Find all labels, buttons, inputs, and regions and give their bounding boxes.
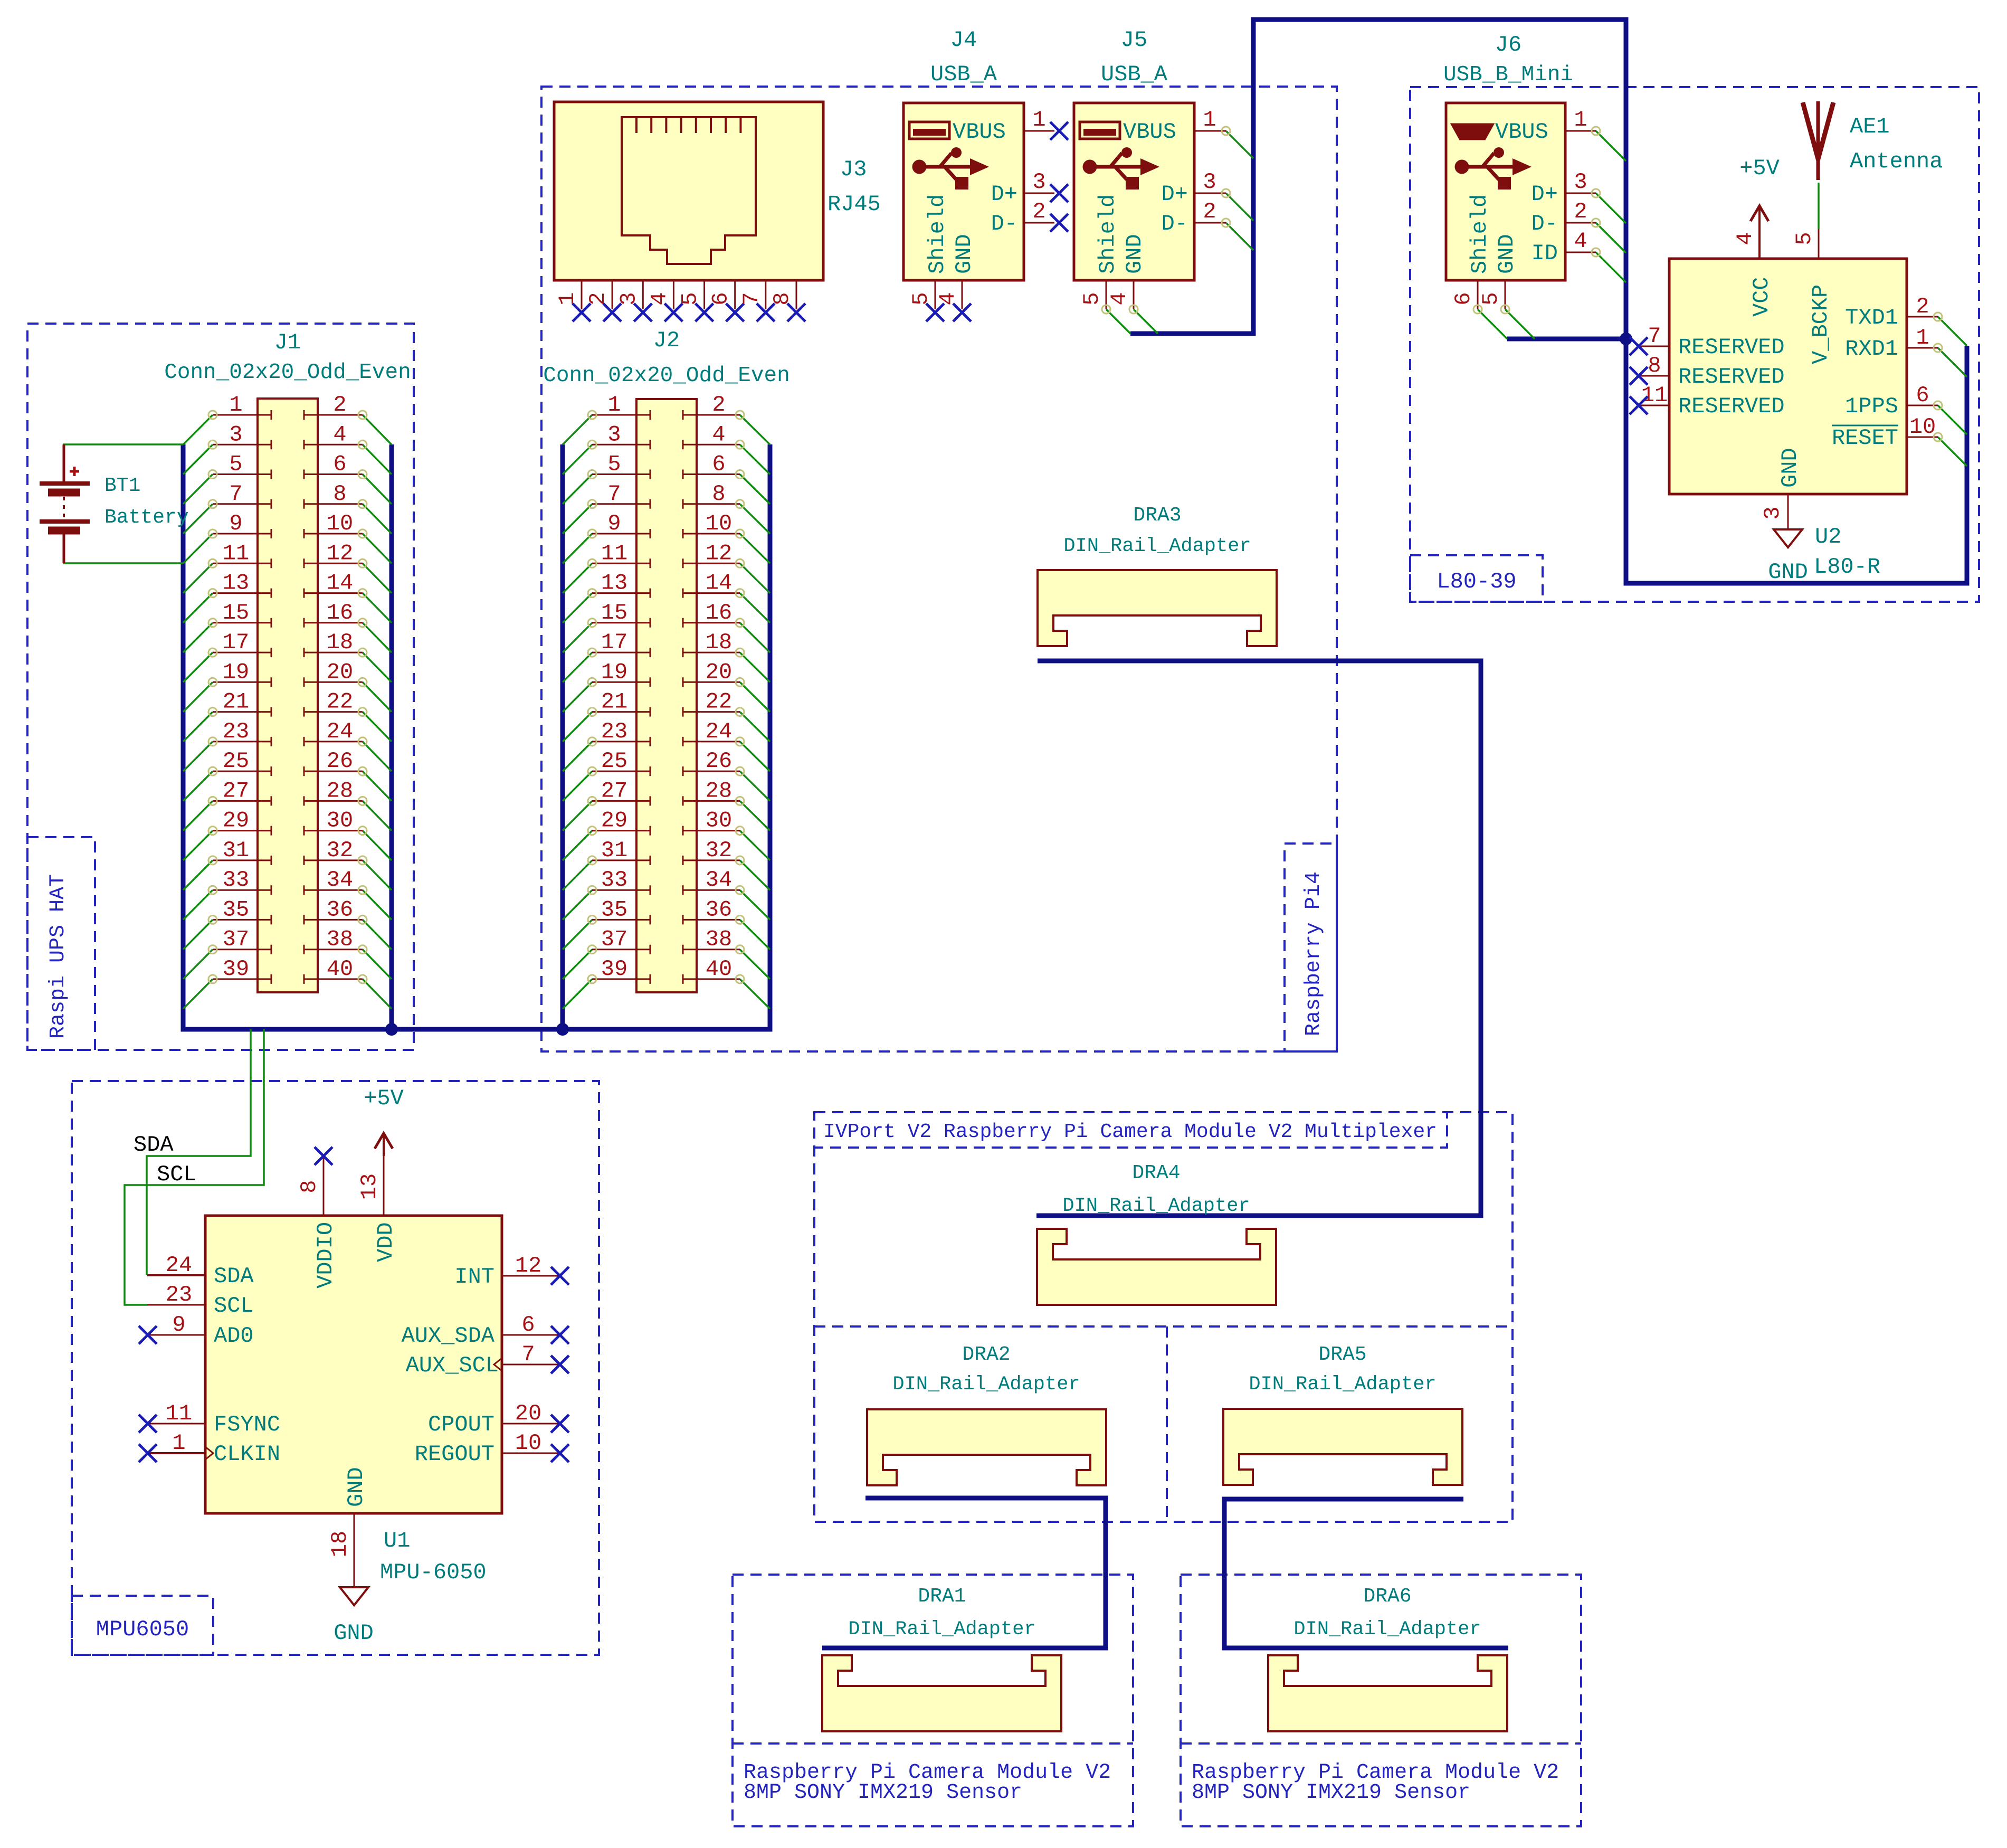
IC U1 MPU-6050 [205, 1216, 502, 1585]
svg-text:AD0: AD0 [214, 1323, 254, 1349]
svg-text:12: 12 [327, 541, 353, 566]
svg-text:33: 33 [223, 867, 249, 893]
wire U2 pin diagonals [1938, 317, 1967, 466]
U2 pins 2,1 TXD1 RXD1 [1845, 294, 1942, 362]
svg-text:7: 7 [229, 481, 242, 507]
J5 pins 5,4 bottom [1079, 280, 1138, 314]
wire J5 pin diagonals [1106, 131, 1253, 334]
svg-text:1: 1 [1203, 107, 1216, 132]
svg-text:37: 37 [601, 927, 627, 952]
J6 pins 1,3,2,4 right [1565, 107, 1600, 257]
svg-text:5: 5 [678, 292, 703, 305]
svg-text:DIN_Rail_Adapter: DIN_Rail_Adapter [1062, 1195, 1250, 1217]
svg-text:8: 8 [297, 1180, 322, 1193]
svg-text:USB_A: USB_A [1101, 62, 1168, 87]
svg-text:40: 40 [706, 956, 732, 982]
svg-text:GND: GND [334, 1620, 374, 1646]
svg-text:29: 29 [223, 808, 249, 833]
svg-text:7: 7 [521, 1342, 535, 1367]
svg-text:19: 19 [223, 659, 249, 685]
svg-text:1PPS: 1PPS [1845, 394, 1898, 419]
DIN rail adapter DRA4 [1037, 1162, 1276, 1305]
svg-text:3: 3 [607, 422, 621, 447]
svg-text:USB_A: USB_A [930, 62, 997, 87]
wire SCL net [125, 1029, 264, 1305]
svg-text:SCL: SCL [157, 1162, 197, 1187]
ground at U2 [1768, 529, 1808, 585]
svg-text:DIN_Rail_Adapter: DIN_Rail_Adapter [848, 1618, 1035, 1641]
wire DRA3 to DRA4 rail [1036, 661, 1481, 1216]
svg-text:2: 2 [1032, 199, 1045, 224]
wire J1 J2 bottom bus [183, 444, 770, 1029]
svg-text:3: 3 [1574, 169, 1587, 195]
svg-text:4: 4 [646, 292, 672, 305]
J3 jack contacts [636, 117, 740, 133]
svg-text:8: 8 [769, 292, 795, 305]
svg-text:GND: GND [952, 234, 977, 274]
svg-text:ID: ID [1532, 241, 1558, 266]
sheet box MPU6050 [72, 1081, 599, 1655]
svg-text:Raspi UPS HAT: Raspi UPS HAT [46, 874, 70, 1039]
svg-text:21: 21 [223, 689, 249, 715]
svg-text:REGOUT: REGOUT [415, 1442, 494, 1467]
svg-text:39: 39 [601, 956, 627, 982]
svg-text:DIN_Rail_Adapter: DIN_Rail_Adapter [1063, 535, 1251, 557]
U2 pin 4 VCC [1733, 232, 1774, 317]
svg-text:1: 1 [229, 392, 242, 418]
svg-text:27: 27 [223, 778, 249, 803]
svg-text:34: 34 [706, 867, 732, 893]
svg-text:23: 23 [223, 719, 249, 744]
svg-text:Conn_02x20_Odd_Even: Conn_02x20_Odd_Even [164, 361, 411, 385]
svg-text:RESERVED: RESERVED [1678, 394, 1785, 419]
svg-text:40: 40 [327, 956, 353, 982]
svg-text:DIN_Rail_Adapter: DIN_Rail_Adapter [1293, 1618, 1481, 1641]
antenna AE1 [1803, 101, 1943, 180]
svg-text:RESET: RESET [1832, 425, 1898, 451]
U1 pin 24 SDA [147, 1253, 254, 1289]
svg-text:MPU6050: MPU6050 [96, 1617, 189, 1642]
svg-text:AUX_SDA: AUX_SDA [402, 1323, 495, 1349]
svg-text:GND: GND [1122, 234, 1147, 274]
DIN rail adapter DRA3 [1038, 504, 1277, 646]
svg-text:30: 30 [706, 808, 732, 833]
connector J6 USB_B_Mini [1443, 32, 1573, 280]
svg-text:24: 24 [706, 719, 732, 744]
wire J1 right diagonals [363, 415, 392, 1009]
svg-text:D+: D+ [1162, 182, 1188, 207]
sheet box camera module 1 [733, 1575, 1133, 1826]
svg-text:4: 4 [1574, 229, 1587, 254]
svg-text:7: 7 [739, 292, 764, 305]
svg-text:10: 10 [515, 1430, 541, 1456]
svg-text:14: 14 [327, 571, 353, 596]
svg-text:22: 22 [706, 689, 732, 715]
U1 pin 23 SCL [147, 1282, 254, 1319]
svg-text:J4: J4 [950, 27, 977, 53]
svg-text:11: 11 [1641, 383, 1668, 408]
svg-text:VBUS: VBUS [1123, 119, 1176, 145]
U2 pins 6,10 1PPS RESET [1832, 383, 1942, 451]
wire J2 right diagonals [740, 415, 770, 1009]
svg-text:20: 20 [515, 1401, 541, 1426]
label SCL [157, 1162, 197, 1187]
svg-text:23: 23 [166, 1282, 192, 1307]
svg-text:18: 18 [327, 1531, 353, 1557]
svg-text:26: 26 [327, 748, 353, 774]
svg-text:6: 6 [1916, 383, 1929, 408]
svg-text:J5: J5 [1121, 27, 1147, 53]
svg-text:7: 7 [607, 481, 621, 507]
svg-text:GND: GND [344, 1467, 369, 1507]
svg-text:8MP SONY IMX219 Sensor: 8MP SONY IMX219 Sensor [1192, 1781, 1470, 1805]
U1 pin 8 VDDIO [297, 1147, 338, 1288]
U2 pins 7,8,11 RESERVED [1630, 324, 1785, 419]
svg-text:28: 28 [706, 778, 732, 803]
J2 pins odd left [588, 392, 650, 984]
wire J1 left diagonals [183, 415, 213, 1009]
svg-text:4: 4 [1107, 292, 1132, 305]
svg-text:VBUS: VBUS [953, 119, 1006, 145]
svg-text:4: 4 [712, 422, 725, 447]
svg-text:38: 38 [706, 927, 732, 952]
DIN rail adapter DRA5 [1223, 1343, 1462, 1485]
svg-text:16: 16 [706, 600, 732, 626]
svg-text:RESERVED: RESERVED [1678, 364, 1785, 390]
svg-text:10: 10 [327, 511, 353, 536]
U1 pin 6 AUX_SDA [402, 1312, 569, 1349]
svg-text:DRA6: DRA6 [1363, 1585, 1411, 1608]
svg-text:U1: U1 [384, 1528, 410, 1553]
svg-text:2: 2 [1916, 294, 1929, 319]
svg-text:6: 6 [333, 452, 346, 477]
svg-text:CLKIN: CLKIN [214, 1442, 280, 1467]
svg-text:Antenna: Antenna [1850, 149, 1943, 174]
svg-text:RESERVED: RESERVED [1678, 335, 1785, 360]
svg-text:1: 1 [172, 1430, 185, 1456]
svg-text:6: 6 [712, 452, 725, 477]
J6 pins 6,5 bottom [1451, 280, 1509, 314]
wire J6 pin diagonals [1478, 131, 1626, 339]
svg-text:29: 29 [601, 808, 627, 833]
wire DRA2 to DRA1 rail [822, 1498, 1106, 1648]
svg-text:3: 3 [229, 422, 242, 447]
svg-text:4: 4 [1733, 232, 1758, 245]
svg-text:6: 6 [708, 292, 734, 305]
svg-text:D+: D+ [1532, 182, 1558, 207]
svg-text:18: 18 [706, 630, 732, 655]
svg-text:DRA4: DRA4 [1132, 1162, 1180, 1184]
svg-text:3: 3 [1760, 506, 1785, 519]
J4 pins 1,3,2 right [1024, 107, 1068, 232]
junction J2 left [556, 1023, 569, 1036]
svg-text:35: 35 [223, 897, 249, 922]
svg-text:16: 16 [327, 600, 353, 626]
svg-text:13: 13 [223, 571, 249, 596]
wire J5 USB bus to U2 loop [1130, 20, 1967, 583]
wire DRA5 to DRA6 rail [1224, 1499, 1508, 1648]
J2 pins even right [683, 392, 744, 984]
svg-text:Battery: Battery [104, 506, 189, 529]
svg-text:1: 1 [555, 292, 580, 305]
svg-text:V_BCKP: V_BCKP [1808, 285, 1833, 364]
svg-text:DIN_Rail_Adapter: DIN_Rail_Adapter [1249, 1373, 1436, 1396]
svg-text:30: 30 [327, 808, 353, 833]
svg-text:2: 2 [333, 392, 346, 418]
svg-text:J1: J1 [274, 330, 301, 355]
svg-text:24: 24 [327, 719, 353, 744]
ground at U1 [334, 1587, 374, 1646]
sheet box camera module 2 [1181, 1575, 1581, 1826]
U1 pin 9 AD0 [139, 1312, 254, 1349]
svg-text:5: 5 [1792, 232, 1817, 245]
svg-text:INT: INT [454, 1264, 494, 1290]
J3 pins 1-8 [555, 280, 805, 321]
U2 pin 5 V_BCKP [1792, 229, 1833, 364]
svg-text:L80-39: L80-39 [1437, 569, 1516, 594]
U2 pin 3 GND [1760, 448, 1803, 529]
svg-text:5: 5 [229, 452, 242, 477]
svg-text:U2: U2 [1815, 524, 1841, 549]
svg-text:AUX_SCL: AUX_SCL [406, 1353, 499, 1378]
svg-text:13: 13 [601, 571, 627, 596]
svg-text:VBUS: VBUS [1495, 119, 1548, 145]
svg-text:32: 32 [327, 838, 353, 863]
wire battery negative [64, 534, 183, 563]
svg-text:15: 15 [601, 600, 627, 626]
svg-text:1: 1 [1574, 107, 1587, 132]
svg-text:39: 39 [223, 956, 249, 982]
svg-text:17: 17 [601, 630, 627, 655]
svg-text:5: 5 [1079, 292, 1105, 305]
svg-text:2: 2 [585, 292, 611, 305]
svg-text:1: 1 [607, 392, 621, 418]
DIN rail adapter DRA1 [822, 1585, 1061, 1731]
sheet box IVPort V2 multiplexer [814, 1112, 1513, 1522]
svg-text:38: 38 [327, 927, 353, 952]
svg-text:5: 5 [1478, 292, 1504, 305]
connector J1 Conn_02x20_Odd_Even [164, 330, 411, 992]
U1 pin 10 REGOUT [415, 1430, 569, 1467]
U1 pin 20 CPOUT [428, 1401, 569, 1437]
svg-text:6: 6 [521, 1312, 535, 1338]
U1 pin 11 FSYNC [139, 1401, 280, 1437]
svg-text:18: 18 [327, 630, 353, 655]
svg-text:24: 24 [166, 1253, 192, 1278]
svg-text:D-: D- [1532, 211, 1558, 236]
svg-text:17: 17 [223, 630, 249, 655]
U1 pin 18 GND [327, 1467, 369, 1587]
svg-text:L80-R: L80-R [1814, 554, 1880, 580]
connector J2 Conn_02x20_Odd_Even [543, 328, 790, 992]
svg-text:31: 31 [601, 838, 627, 863]
wire antenna to V_BCKP [1818, 183, 1820, 229]
svg-text:2: 2 [1574, 199, 1587, 224]
svg-text:23: 23 [601, 719, 627, 744]
svg-text:RJ45: RJ45 [827, 192, 881, 217]
svg-text:AE1: AE1 [1850, 114, 1890, 139]
svg-text:5: 5 [908, 292, 934, 305]
svg-text:21: 21 [601, 689, 627, 715]
svg-text:Shield: Shield [925, 194, 950, 274]
U1 pin 12 INT [454, 1253, 569, 1290]
svg-text:MPU-6050: MPU-6050 [380, 1560, 487, 1585]
svg-text:BT1: BT1 [104, 475, 140, 497]
label SDA [134, 1132, 174, 1158]
svg-text:10: 10 [706, 511, 732, 536]
junction J1 right [385, 1023, 398, 1036]
svg-text:1: 1 [1032, 107, 1045, 132]
svg-text:2: 2 [1203, 199, 1216, 224]
svg-text:25: 25 [223, 748, 249, 774]
svg-text:11: 11 [601, 541, 627, 566]
svg-text:10: 10 [1909, 414, 1936, 440]
svg-text:CPOUT: CPOUT [428, 1412, 494, 1437]
svg-text:Conn_02x20_Odd_Even: Conn_02x20_Odd_Even [543, 364, 790, 388]
svg-text:TXD1: TXD1 [1845, 305, 1898, 330]
svg-text:5: 5 [607, 452, 621, 477]
svg-text:9: 9 [172, 1312, 185, 1338]
U1 pin 7 AUX_SCL [406, 1342, 569, 1378]
wire SDA net [147, 1029, 251, 1275]
svg-text:32: 32 [706, 838, 732, 863]
svg-text:9: 9 [607, 511, 621, 536]
svg-text:4: 4 [935, 292, 960, 305]
battery BT1 [40, 444, 189, 563]
svg-text:31: 31 [223, 838, 249, 863]
power +5V (U2 VCC) [1739, 156, 1780, 259]
svg-text:14: 14 [706, 571, 732, 596]
svg-text:13: 13 [357, 1173, 382, 1200]
svg-text:3: 3 [616, 292, 641, 305]
svg-text:DRA3: DRA3 [1133, 504, 1181, 527]
svg-text:RXD1: RXD1 [1845, 336, 1898, 362]
svg-text:20: 20 [327, 659, 353, 685]
svg-text:DRA1: DRA1 [918, 1585, 966, 1608]
svg-text:2: 2 [712, 392, 725, 418]
svg-text:3: 3 [1032, 169, 1045, 195]
svg-text:25: 25 [601, 748, 627, 774]
svg-text:J3: J3 [840, 157, 867, 182]
svg-text:35: 35 [601, 897, 627, 922]
sheet box Raspi UPS HAT [27, 324, 414, 1050]
svg-text:9: 9 [229, 511, 242, 536]
svg-text:+5V: +5V [364, 1086, 404, 1111]
svg-text:DRA5: DRA5 [1318, 1343, 1366, 1366]
svg-text:SDA: SDA [134, 1132, 174, 1158]
svg-text:11: 11 [166, 1401, 192, 1426]
svg-text:36: 36 [706, 897, 732, 922]
svg-text:36: 36 [327, 897, 353, 922]
svg-text:+5V: +5V [1739, 156, 1780, 181]
svg-text:8: 8 [712, 481, 725, 507]
junction J6/U2 node [1620, 333, 1632, 345]
wire battery positive [64, 444, 183, 478]
svg-text:GND: GND [1777, 448, 1803, 488]
svg-text:3: 3 [1203, 169, 1216, 195]
svg-text:IVPort V2 Raspberry Pi Camera: IVPort V2 Raspberry Pi Camera Module V2 … [823, 1121, 1437, 1143]
sheet box Raspberry Pi4 [541, 87, 1337, 1051]
wire J6 ground stub [1507, 337, 1626, 342]
svg-text:DRA2: DRA2 [962, 1343, 1010, 1366]
svg-text:34: 34 [327, 867, 353, 893]
DIN rail adapter DRA6 [1268, 1585, 1507, 1731]
svg-text:SDA: SDA [214, 1264, 254, 1289]
svg-text:27: 27 [601, 778, 627, 803]
op-amp U2 L80-R [1669, 259, 1907, 580]
svg-text:VCC: VCC [1749, 277, 1774, 317]
svg-text:VDDIO: VDDIO [313, 1222, 338, 1288]
svg-text:Shield: Shield [1467, 194, 1492, 274]
svg-text:D-: D- [1162, 211, 1188, 236]
DIN rail adapter DRA2 [867, 1343, 1106, 1485]
svg-text:8: 8 [1648, 353, 1661, 378]
svg-text:33: 33 [601, 867, 627, 893]
svg-text:8MP SONY IMX219 Sensor: 8MP SONY IMX219 Sensor [744, 1781, 1022, 1805]
J5 pins 1,3,2 right [1194, 107, 1230, 227]
connector J5 USB_A [1074, 27, 1194, 280]
U1 pin 1 CLKIN [139, 1430, 280, 1467]
svg-text:Raspberry Pi4: Raspberry Pi4 [1302, 871, 1326, 1036]
svg-text:GND: GND [1494, 234, 1519, 274]
sheet box L80-39 [1410, 87, 1979, 602]
U1 pin 13 VDD [357, 1156, 398, 1262]
svg-text:D-: D- [991, 211, 1017, 236]
svg-text:FSYNC: FSYNC [214, 1412, 280, 1437]
svg-text:6: 6 [1451, 292, 1476, 305]
svg-text:4: 4 [333, 422, 346, 447]
svg-text:8: 8 [333, 481, 346, 507]
power +5V (U1 VDD) [364, 1086, 404, 1156]
svg-text:7: 7 [1648, 324, 1661, 349]
svg-text:22: 22 [327, 689, 353, 715]
svg-text:12: 12 [515, 1253, 541, 1278]
wire J2 left diagonals [563, 415, 592, 1009]
J1 pins even right [304, 392, 367, 984]
svg-text:15: 15 [223, 600, 249, 626]
svg-text:37: 37 [223, 927, 249, 952]
svg-text:USB_B_Mini: USB_B_Mini [1443, 63, 1573, 87]
svg-text:J2: J2 [653, 328, 680, 353]
svg-text:D+: D+ [991, 182, 1017, 207]
connector J4 USB_A [903, 27, 1024, 280]
svg-text:11: 11 [223, 541, 249, 566]
svg-text:SCL: SCL [214, 1293, 254, 1319]
svg-text:1: 1 [1916, 325, 1929, 350]
svg-text:GND: GND [1768, 560, 1808, 585]
connector J3 RJ45 [554, 102, 823, 280]
svg-text:26: 26 [706, 748, 732, 774]
svg-text:Shield: Shield [1095, 194, 1120, 274]
svg-text:DIN_Rail_Adapter: DIN_Rail_Adapter [892, 1373, 1080, 1396]
J1 pins odd left [208, 392, 271, 984]
svg-text:28: 28 [327, 778, 353, 803]
svg-text:19: 19 [601, 659, 627, 685]
svg-text:VDD: VDD [373, 1222, 398, 1262]
svg-text:12: 12 [706, 541, 732, 566]
J3 labels [827, 157, 881, 217]
J4 pins 5,4 bottom [908, 280, 971, 321]
svg-text:20: 20 [706, 659, 732, 685]
svg-text:J6: J6 [1495, 32, 1521, 58]
